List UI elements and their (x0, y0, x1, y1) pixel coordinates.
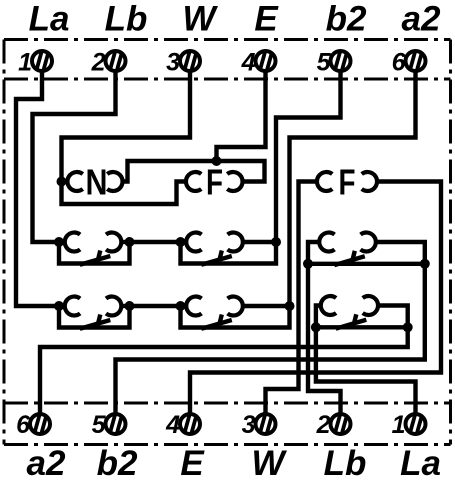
contact S6 (right box lower) (311, 296, 413, 332)
svg-text:b2: b2 (97, 444, 138, 483)
svg-text:1: 1 (18, 49, 32, 77)
wire terminal3-top to lamp N node (62, 70, 191, 204)
wire terminal1-top to row2 left contact (16, 70, 57, 306)
border frame dash-dot right (449, 40, 452, 445)
svg-text:a2: a2 (402, 0, 441, 39)
svg-text:4: 4 (241, 49, 256, 77)
contact S1 (row1 left) (54, 233, 135, 265)
wire row1 S1 to S2 (130, 240, 183, 244)
svg-text:6: 6 (16, 411, 31, 439)
junction dot node N-left (57, 177, 67, 187)
contact S4 (row2 middle) (176, 297, 295, 329)
svg-text:N: N (86, 162, 108, 203)
terminal 6 (top) (406, 51, 426, 71)
terminal 6 (bottom) (30, 414, 50, 434)
wire S5 right to terminal5-bottom (116, 264, 425, 415)
svg-text:W: W (182, 0, 218, 39)
svg-text:2: 2 (316, 411, 331, 439)
contact S2 (row1 middle) (176, 232, 282, 264)
wire S6 left to terminal1-bottom (316, 327, 416, 415)
svg-text:W: W (251, 444, 287, 483)
wire lamp N right to node K (123, 161, 215, 182)
terminal 3 (bottom) (256, 414, 276, 434)
contact S5 (right box upper) (303, 233, 430, 269)
wire node K to lamp F1 right lead (217, 161, 265, 182)
wire row2 S3 to S4 (130, 304, 183, 308)
svg-text:Lb: Lb (105, 0, 148, 39)
svg-text:2: 2 (91, 49, 106, 77)
svg-text:E: E (254, 0, 279, 39)
terminal 2 (bottom) (331, 414, 351, 434)
terminal 2 (top) (106, 51, 126, 71)
svg-text:3: 3 (242, 411, 256, 439)
svg-text:F: F (206, 162, 223, 203)
svg-text:1: 1 (392, 411, 406, 439)
svg-text:4: 4 (165, 411, 180, 439)
svg-text:5: 5 (92, 411, 107, 439)
svg-text:F: F (339, 162, 356, 203)
svg-text:La: La (29, 0, 70, 39)
terminal 1 (bottom) (406, 414, 426, 434)
wire S5 left to terminal2-bottom (308, 264, 341, 415)
terminal strip line bottom (4, 402, 451, 405)
svg-text:E: E (180, 444, 205, 483)
wire lamp N left lead (62, 179, 69, 183)
lamp N (67, 162, 122, 203)
svg-text:6: 6 (392, 49, 407, 77)
junction dot node K (212, 156, 222, 166)
contact S3 (row2 left) (54, 297, 135, 329)
lamp F1 (186, 162, 243, 203)
terminal 4 (top) (256, 51, 276, 71)
svg-text:a2: a2 (27, 444, 66, 483)
border frame dash-dot bottom (4, 443, 451, 446)
svg-text:b2: b2 (326, 0, 367, 39)
terminal 3 (top) (180, 51, 200, 71)
wire lamp F2 left lead down to terminal3-bottom (266, 182, 318, 416)
wire terminal2-top to row1 left contact (33, 70, 116, 242)
svg-text:5: 5 (317, 49, 332, 77)
wire terminal6-top to row2 middle contact right (290, 70, 416, 303)
terminal 4 (bottom) (180, 414, 200, 434)
border frame dash-dot left (3, 40, 6, 445)
lamp F2 (317, 162, 377, 203)
wire S6 right to terminal6-bottom (40, 327, 408, 415)
terminal 1 (top) (32, 51, 52, 71)
border frame dash-dot top (4, 38, 451, 41)
svg-text:La: La (400, 444, 441, 483)
svg-text:3: 3 (166, 49, 180, 77)
wire terminal4-top to node K (217, 70, 266, 159)
wire terminal5-top to row1 middle contact right (276, 70, 341, 240)
wire lamp F2 right lead down to terminal4-bottom (190, 182, 441, 416)
terminal strip line top (4, 78, 451, 81)
terminal 5 (bottom) (106, 414, 126, 434)
svg-text:Lb: Lb (324, 444, 367, 483)
terminal 5 (top) (331, 51, 351, 71)
